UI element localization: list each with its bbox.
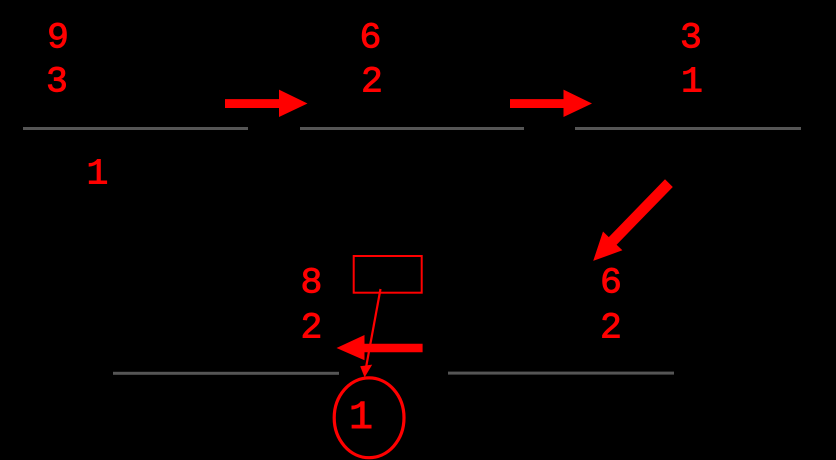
svg-text:9: 9 <box>47 17 69 58</box>
thin connector line from box to circle <box>366 289 380 366</box>
thin connector arrowhead <box>360 365 372 378</box>
red box <box>354 256 422 293</box>
answer line 1 <box>23 127 248 130</box>
svg-text:3: 3 <box>680 17 702 58</box>
svg-text:3: 3 <box>46 62 68 103</box>
arrow diagonal down-left C <box>593 179 673 261</box>
svg-text:8: 8 <box>301 263 323 304</box>
svg-text:6: 6 <box>600 263 622 304</box>
svg-text:6: 6 <box>360 17 382 58</box>
svg-text:2: 2 <box>361 62 383 103</box>
answer line 4 bottom-left <box>113 372 339 375</box>
svg-text:1: 1 <box>87 154 109 195</box>
arrow right B <box>510 90 592 117</box>
svg-text:2: 2 <box>301 308 323 349</box>
svg-text:2: 2 <box>600 308 622 349</box>
answer line 3 <box>575 127 801 130</box>
answer line 5 bottom-right <box>448 372 674 375</box>
circle around carried 1 <box>334 378 404 458</box>
arrow left D <box>337 335 423 360</box>
answer line 2 <box>300 127 524 130</box>
svg-text:1: 1 <box>349 396 373 441</box>
svg-text:1: 1 <box>681 62 703 103</box>
arrow right A <box>225 90 308 117</box>
